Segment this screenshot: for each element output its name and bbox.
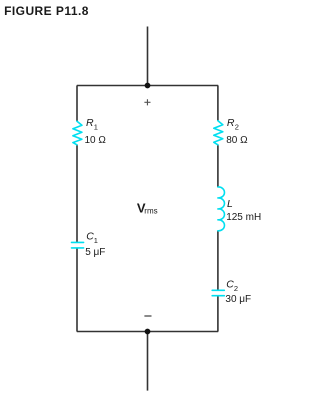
svg-text:1: 1 [94, 236, 98, 245]
svg-text:125 mH: 125 mH [226, 212, 261, 223]
svg-text:2: 2 [235, 122, 239, 131]
svg-text:L: L [227, 198, 233, 210]
svg-text:2: 2 [234, 284, 238, 293]
svg-text:30 μF: 30 μF [225, 294, 251, 305]
svg-text:1: 1 [94, 122, 98, 131]
svg-text:rms: rms [144, 206, 157, 215]
svg-text:10 Ω: 10 Ω [85, 135, 107, 146]
svg-text:FIGURE P11.8: FIGURE P11.8 [4, 4, 89, 18]
svg-text:5 μF: 5 μF [85, 247, 105, 258]
svg-text:R: R [227, 117, 235, 129]
svg-text:R: R [86, 117, 94, 129]
svg-text:80 Ω: 80 Ω [226, 135, 248, 146]
